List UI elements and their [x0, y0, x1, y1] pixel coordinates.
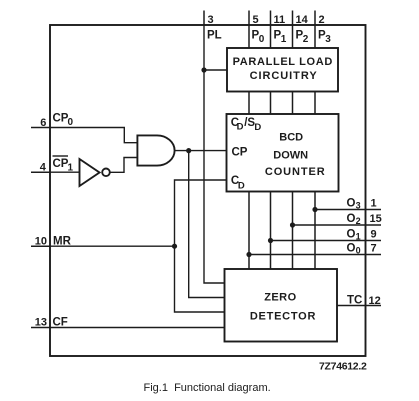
svg-text:O: O	[347, 198, 356, 210]
junction O3	[312, 207, 317, 212]
wire MR to CD net	[50, 245, 175, 247]
junction PL	[201, 67, 206, 72]
svg-text:CP: CP	[53, 113, 69, 125]
wire output O1	[271, 240, 382, 242]
svg-text:0: 0	[68, 117, 74, 128]
svg-text:DOWN: DOWN	[273, 149, 308, 161]
pin 13 stub	[31, 327, 50, 329]
svg-text:0: 0	[356, 246, 361, 256]
wire output O3	[315, 209, 381, 211]
pin 14 number	[296, 14, 309, 26]
svg-text:2: 2	[303, 34, 309, 45]
pin 1 number	[371, 197, 377, 209]
svg-text:12: 12	[369, 295, 381, 307]
node CF label	[53, 317, 68, 329]
svg-text:O: O	[347, 213, 356, 225]
wire counter CD input net	[175, 180, 227, 312]
svg-text:11: 11	[274, 14, 286, 26]
node P2 label	[296, 30, 309, 46]
wire counter to detector col2	[270, 192, 272, 270]
wire counter to detector col4	[314, 192, 316, 270]
pin 5 stub	[248, 11, 250, 49]
wire AND output down to detector	[189, 151, 225, 298]
svg-text:ZERO: ZERO	[264, 291, 296, 303]
zero detector block U3	[225, 269, 338, 342]
wire PL box to counter col1	[248, 92, 250, 115]
svg-text:0: 0	[259, 34, 265, 45]
svg-text:7Z74612.2: 7Z74612.2	[319, 360, 367, 372]
svg-text:10: 10	[35, 235, 47, 247]
svg-text:BCD: BCD	[279, 131, 303, 143]
node PL label	[207, 30, 222, 42]
BCD down counter block U2	[227, 114, 339, 192]
svg-text:1: 1	[281, 34, 287, 45]
pin 11 number	[274, 14, 286, 26]
junction O2	[290, 222, 295, 227]
pin 12 number	[369, 295, 381, 307]
wire counter to detector col1	[248, 192, 250, 270]
pin 15 number	[370, 213, 382, 225]
node TC label	[347, 294, 362, 306]
pin 2 stub	[314, 11, 316, 49]
node O3 label	[347, 198, 361, 211]
pin 4 stub	[31, 171, 50, 173]
pin 14 stub	[292, 11, 294, 49]
pin 7 number	[371, 242, 377, 254]
junction O0	[246, 252, 251, 257]
caption Fig.1 Functional diagram	[144, 382, 271, 394]
node O0 label	[347, 243, 361, 256]
svg-text:D: D	[237, 121, 244, 132]
svg-text:D: D	[254, 122, 261, 133]
pin 3 stub	[203, 11, 205, 26]
svg-text:O: O	[347, 243, 356, 255]
pin 10 number	[35, 235, 47, 247]
svg-text:O: O	[347, 229, 356, 241]
pin 13 number	[35, 317, 47, 329]
junction AND output	[186, 148, 191, 153]
svg-text:9: 9	[371, 228, 377, 240]
node CP1 label (with overline)	[53, 156, 74, 174]
wire PL box to counter col4	[314, 92, 316, 115]
node P3 label	[318, 30, 331, 46]
AND gate G1	[137, 135, 174, 165]
svg-text:7: 7	[371, 242, 377, 254]
svg-text:6: 6	[40, 117, 46, 129]
svg-text:DETECTOR: DETECTOR	[250, 311, 316, 323]
pin 5 number	[253, 14, 259, 26]
svg-text:1: 1	[356, 232, 361, 242]
pin 10 stub	[31, 245, 50, 247]
wire AND output to counter CP	[175, 150, 227, 152]
svg-text:D: D	[238, 180, 245, 191]
svg-text:3: 3	[356, 201, 361, 211]
node O1 label	[347, 229, 361, 242]
parallel load circuitry block U1	[227, 48, 338, 92]
svg-text:2: 2	[319, 14, 325, 26]
wire PL box to counter col3	[292, 92, 294, 115]
svg-text:PARALLEL LOAD: PARALLEL LOAD	[233, 56, 333, 68]
svg-text:CP: CP	[232, 147, 248, 159]
inverter U4	[80, 159, 110, 186]
part number 7Z74612.2	[319, 360, 367, 372]
wire output O0	[249, 254, 381, 256]
svg-text:13: 13	[35, 317, 47, 329]
node P0 label	[252, 30, 265, 46]
svg-text:5: 5	[253, 14, 259, 26]
node CP0 label	[53, 113, 74, 129]
wire output O2	[293, 224, 382, 226]
svg-text:Fig.1 Functional diagram.: Fig.1 Functional diagram.	[144, 382, 271, 394]
svg-text:CIRCUITRY: CIRCUITRY	[250, 70, 318, 82]
node O2 label	[347, 213, 361, 226]
pin 6 stub	[31, 127, 50, 129]
wire counter to detector col3	[292, 192, 294, 270]
wire inverter output to AND gate	[110, 158, 138, 173]
wire PL box to counter col2	[270, 92, 272, 115]
wire PL net: down from pin 3 and into detector	[204, 25, 227, 283]
svg-text:3: 3	[325, 34, 331, 45]
pin 3 number	[208, 14, 214, 26]
svg-text:CP: CP	[53, 158, 69, 170]
svg-text:4: 4	[40, 161, 47, 173]
junction O1	[268, 238, 273, 243]
svg-text:COUNTER: COUNTER	[265, 166, 326, 178]
node P1 label	[274, 30, 287, 46]
svg-text:1: 1	[371, 197, 377, 209]
svg-text:2: 2	[356, 216, 361, 226]
svg-text:3: 3	[208, 14, 214, 26]
pin 6 number	[40, 117, 46, 129]
wire CF to zero detector	[50, 327, 225, 329]
wire TC output	[337, 305, 381, 307]
pin 11 stub	[270, 11, 272, 49]
junction MR	[172, 244, 177, 249]
pin 9 number	[371, 228, 377, 240]
svg-text:15: 15	[370, 213, 382, 225]
svg-text:14: 14	[296, 14, 309, 26]
svg-text:PL: PL	[207, 30, 222, 42]
node MR label	[53, 235, 72, 247]
wire CP0 to AND gate	[50, 128, 137, 143]
pin 4 number	[40, 161, 47, 173]
wire CP1 to inverter	[50, 171, 80, 173]
pin 2 number	[319, 14, 325, 26]
IC boundary box	[50, 25, 366, 356]
svg-text:TC: TC	[347, 294, 362, 306]
